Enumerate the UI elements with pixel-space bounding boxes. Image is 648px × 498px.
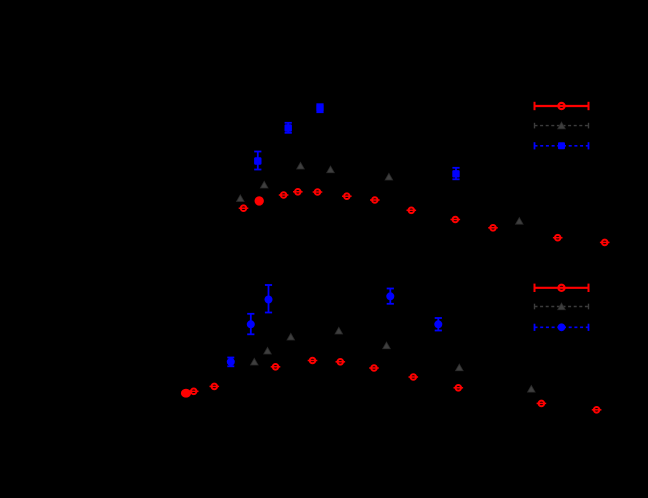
blue point 3 <box>268 285 270 313</box>
top legend row 3: blue dashed line with square <box>535 142 589 149</box>
blue point 2 <box>250 314 252 335</box>
top gray triangle series <box>237 162 524 224</box>
top legend row 2: gray dashed line with triangle <box>535 122 589 129</box>
blue point 1 <box>257 152 259 170</box>
top blue series: squares with vertical error bars <box>254 104 460 179</box>
bottom legend row 1: red errorbar line <box>535 284 589 292</box>
blue point 4 <box>389 289 391 304</box>
top red series: open circles with small x error bars <box>239 189 610 245</box>
blue point 5 <box>437 318 439 331</box>
bottom legend row 2: gray dashed line with triangle <box>535 303 589 310</box>
bottom gray triangle series <box>251 327 536 392</box>
blue point 2 <box>287 123 289 133</box>
bottom red series: open circles with small x error bars <box>181 358 601 413</box>
bottom blue series: circles with vertical error bars <box>227 285 442 366</box>
bottom legend row 3: blue dashed line with circle <box>535 323 589 331</box>
blue point 1 <box>230 358 232 367</box>
top legend row 1: red errorbar line <box>535 102 589 110</box>
blue point 4 <box>455 168 457 180</box>
blue point 3 <box>319 104 321 112</box>
